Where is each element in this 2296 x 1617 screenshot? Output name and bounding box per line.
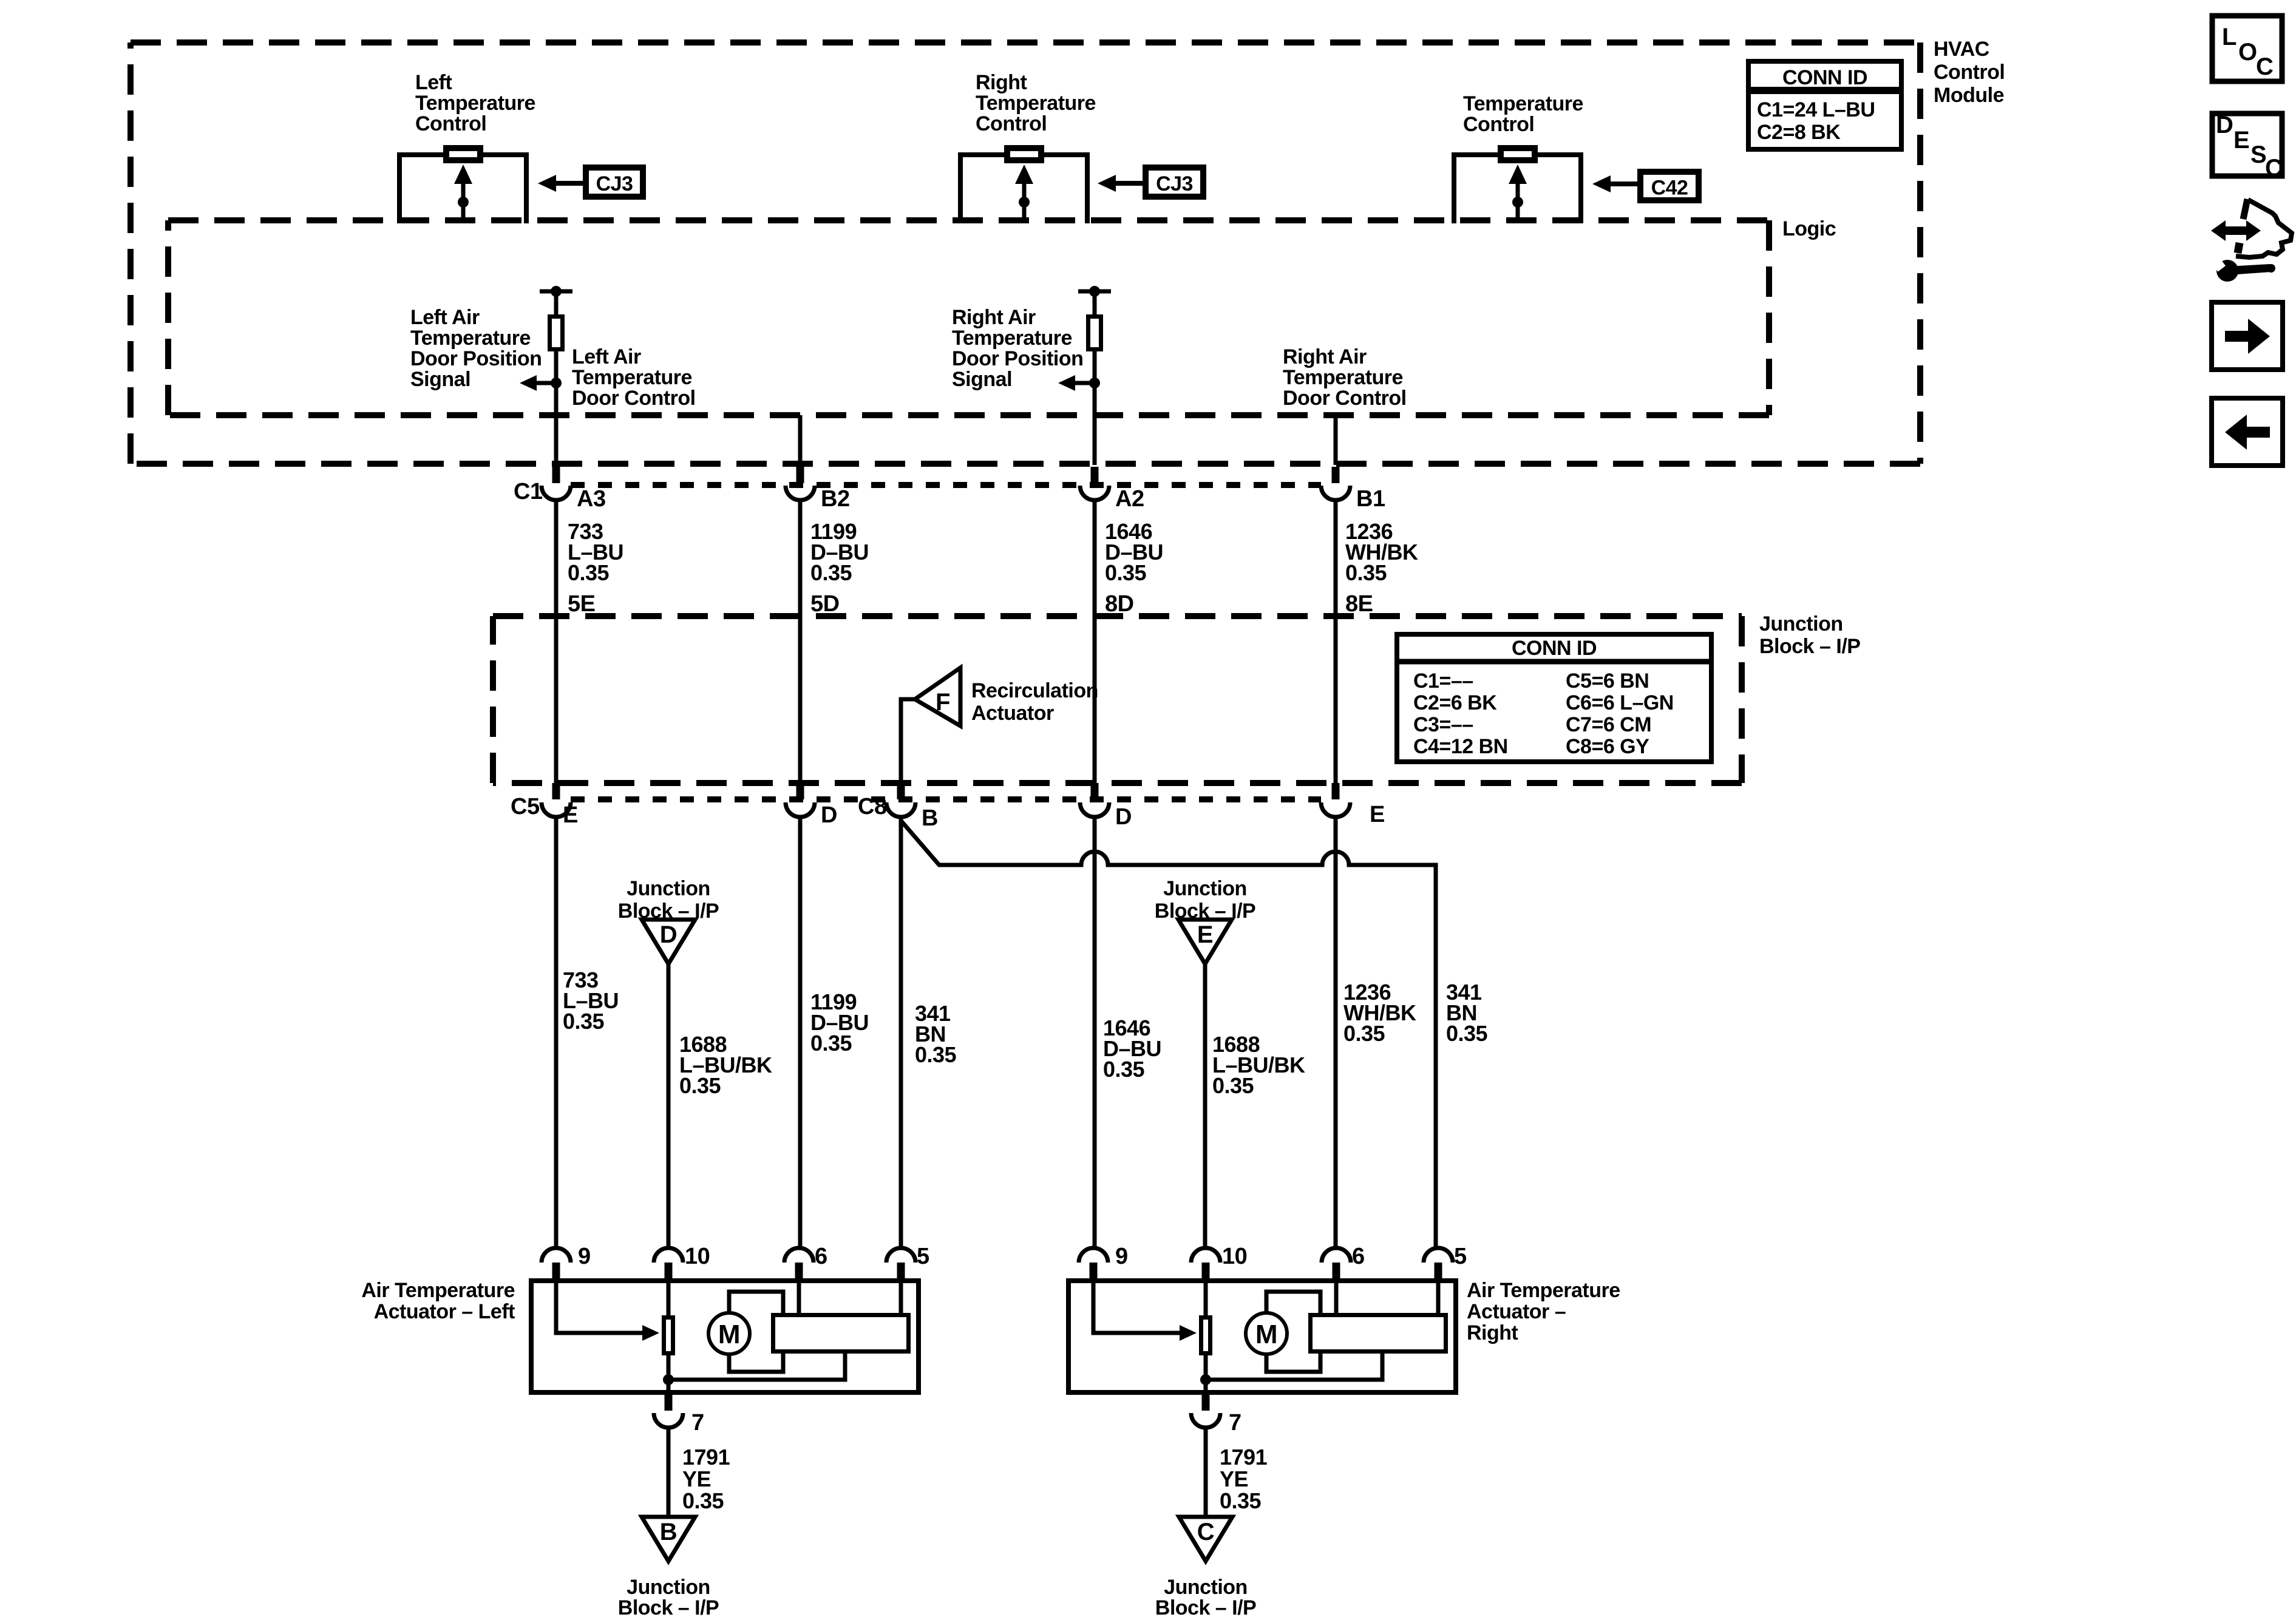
Air Temperature Actuator - Right pin 10 wire through potentiometer bbox=[1204, 1278, 1208, 1395]
svg-text:Junction: Junction bbox=[1759, 612, 1843, 636]
svg-text:Temperature: Temperature bbox=[415, 92, 535, 115]
wire 1791 YE from left actuator pin 7 bbox=[667, 1427, 671, 1518]
svg-text:Junction: Junction bbox=[1163, 877, 1247, 900]
svg-text:0.35: 0.35 bbox=[1345, 560, 1387, 585]
svg-text:YE: YE bbox=[682, 1466, 711, 1491]
junction dot common return bbox=[663, 1374, 674, 1385]
svg-text:0.35: 0.35 bbox=[679, 1073, 721, 1098]
CONN ID table (HVAC Control Module) bbox=[1748, 61, 1901, 149]
svg-text:5E: 5E bbox=[568, 591, 595, 617]
Air Temperature Actuator - Right motor winding loop bbox=[1266, 1292, 1320, 1372]
svg-text:L: L bbox=[2222, 24, 2237, 50]
svg-text:Module: Module bbox=[1934, 84, 2004, 107]
wire 1646 D-BU from logic to C1 pin A2 bbox=[1093, 415, 1097, 465]
svg-text:Door Control: Door Control bbox=[572, 387, 696, 410]
junction block pin D terminal bbox=[796, 783, 804, 799]
svg-text:D: D bbox=[821, 802, 837, 828]
svg-text:Actuator – Left: Actuator – Left bbox=[374, 1300, 515, 1323]
potentiometer Right Temperature Control left leg wire bbox=[960, 155, 1004, 223]
svg-text:Actuator: Actuator bbox=[971, 702, 1054, 725]
svg-text:C6=6 L–GN: C6=6 L–GN bbox=[1566, 691, 1674, 714]
potentiometer Temperature Control right leg wire bbox=[1538, 155, 1581, 223]
back arrow icon box bbox=[2212, 398, 2283, 466]
potentiometer Right Temperature Control body bbox=[1007, 148, 1041, 160]
wire 1688 L-BU/BK triangle E to actuator right pin 10 bbox=[1203, 964, 1207, 1249]
wire from bar to resistor bbox=[554, 291, 559, 316]
potentiometer Right Temperature Control right leg wire bbox=[1044, 155, 1087, 223]
svg-text:6: 6 bbox=[815, 1244, 827, 1269]
svg-text:0.35: 0.35 bbox=[568, 560, 610, 585]
svg-text:Right: Right bbox=[1467, 1321, 1518, 1344]
Recirculation Actuator triangle F bbox=[915, 668, 960, 726]
svg-text:Block – I/P: Block – I/P bbox=[1155, 1596, 1256, 1617]
svg-text:Temperature: Temperature bbox=[952, 327, 1072, 350]
svg-text:S: S bbox=[2250, 141, 2266, 168]
svg-text:Right Air: Right Air bbox=[1283, 345, 1367, 368]
Air Temperature Actuator - Left motor M bbox=[708, 1313, 750, 1354]
LOC icon box bbox=[2212, 16, 2282, 81]
svg-text:7: 7 bbox=[691, 1410, 704, 1436]
potentiometer Right Temperature Control wiper arrow bbox=[1015, 164, 1033, 184]
svg-text:5: 5 bbox=[917, 1244, 929, 1269]
Air Temperature Actuator - Left pin 6 terminal bbox=[784, 1248, 813, 1263]
vehicle direction icon bbox=[2211, 199, 2292, 282]
wire 1199 D-BU from logic to C1 pin B2 bbox=[798, 415, 803, 465]
svg-text:0.35: 0.35 bbox=[682, 1488, 724, 1513]
svg-text:Door Position: Door Position bbox=[952, 347, 1083, 370]
Air Temperature Actuator - Left feedback winding bbox=[773, 1315, 909, 1352]
svg-text:Air Temperature: Air Temperature bbox=[361, 1279, 515, 1302]
svg-text:C: C bbox=[1197, 1519, 1214, 1545]
svg-text:9: 9 bbox=[1115, 1244, 1128, 1269]
connector C1 pin A3 terminal bbox=[552, 467, 560, 483]
wire 733 L-BU from logic to C1 pin A3 bbox=[554, 415, 559, 465]
junction block C5 pin E terminal bbox=[552, 783, 560, 799]
svg-text:CJ3: CJ3 bbox=[596, 172, 633, 195]
Air Temperature Actuator - Right feedback winding bbox=[1311, 1315, 1446, 1352]
svg-text:YE: YE bbox=[1220, 1466, 1248, 1491]
svg-text:0.35: 0.35 bbox=[810, 1031, 852, 1056]
junction block pin D terminal bbox=[1091, 783, 1099, 799]
Air Temperature Actuator - Right common return wire bbox=[1206, 1354, 1382, 1380]
Junction Block I/P dashed box bbox=[493, 613, 1742, 619]
junction dot on Right Temperature Control wiper bbox=[1019, 197, 1030, 208]
svg-text:C1: C1 bbox=[514, 479, 543, 504]
svg-text:Signal: Signal bbox=[952, 368, 1012, 391]
Air Temperature Actuator - Right pin 6 terminal bbox=[1322, 1248, 1351, 1263]
svg-text:Block – I/P: Block – I/P bbox=[618, 1596, 719, 1617]
wire 1646 D-BU to actuator right pin 9 bbox=[1093, 816, 1097, 1249]
svg-text:B2: B2 bbox=[821, 486, 850, 512]
Air Temperature Actuator - Left pin 6 wire bbox=[797, 1278, 801, 1315]
svg-text:C3=––: C3=–– bbox=[1413, 713, 1473, 736]
svg-text:C8=6 GY: C8=6 GY bbox=[1566, 735, 1649, 758]
Air Temperature Actuator - Left motor winding loop bbox=[729, 1292, 783, 1372]
svg-text:6: 6 bbox=[1352, 1244, 1365, 1269]
Air Temperature Actuator - Right pin 10 terminal bbox=[1191, 1248, 1220, 1263]
Air Temperature Actuator - Left pin 10 terminal bbox=[654, 1248, 683, 1263]
Air Temperature Actuator - Right position potentiometer bbox=[1201, 1318, 1211, 1354]
junction block pin E terminal bbox=[1332, 783, 1340, 799]
Air Temperature Actuator - Right pin 7 terminal bbox=[1202, 1395, 1210, 1411]
svg-text:Junction: Junction bbox=[627, 877, 710, 900]
wire below resistor left position sensor bbox=[554, 349, 559, 418]
wire 341 BN to actuator left pin 5 bbox=[899, 816, 903, 1249]
Air Temperature Actuator - Left box bbox=[531, 1281, 919, 1392]
junction dot at right position sensor top bbox=[1089, 286, 1100, 297]
wire 341 BN branch to actuator right pin 5 bbox=[901, 821, 1436, 1249]
Air Temperature Actuator - Left wiper feed wire (pin 9) bbox=[556, 1278, 644, 1333]
connector C1 pin B1 terminal bbox=[1332, 467, 1340, 483]
potentiometer Left Temperature Control body bbox=[446, 148, 480, 160]
wire 1236 WH/BK to junction block 8E bbox=[1334, 499, 1338, 784]
arrow from CJ3 to Right Temperature Control bbox=[1113, 181, 1144, 186]
svg-text:0.35: 0.35 bbox=[915, 1042, 957, 1067]
Air Temperature Actuator - Right motor M bbox=[1246, 1313, 1287, 1354]
wire below resistor right position sensor bbox=[1093, 349, 1097, 418]
svg-text:C4=12 BN: C4=12 BN bbox=[1413, 735, 1508, 758]
Air Temperature Actuator - Left common return wire bbox=[668, 1354, 845, 1380]
wire 1791 YE from right actuator pin 7 bbox=[1204, 1427, 1208, 1518]
svg-text:0.35: 0.35 bbox=[1446, 1021, 1488, 1046]
wire 733 L-BU to actuator left pin 9 bbox=[554, 816, 559, 1249]
svg-text:B1: B1 bbox=[1356, 486, 1385, 512]
svg-text:C42: C42 bbox=[1651, 177, 1688, 200]
svg-text:Logic: Logic bbox=[1782, 217, 1836, 240]
svg-text:C: C bbox=[2256, 53, 2273, 80]
svg-text:0.35: 0.35 bbox=[1220, 1488, 1262, 1513]
svg-text:10: 10 bbox=[685, 1244, 710, 1269]
svg-text:0.35: 0.35 bbox=[810, 560, 852, 585]
Air Temperature Actuator - Right wiper feed wire (pin 9) bbox=[1093, 1278, 1181, 1333]
Air Temperature Actuator - Right pin 5 wire bbox=[1436, 1278, 1441, 1315]
connector CJ3 box (left) bbox=[586, 168, 643, 197]
svg-text:Temperature: Temperature bbox=[410, 327, 531, 350]
junction dot at left position sensor top bbox=[551, 286, 562, 297]
svg-text:C5: C5 bbox=[511, 794, 540, 819]
svg-text:D: D bbox=[2216, 112, 2233, 138]
Air Temperature Actuator - Left pin 7 terminal bbox=[665, 1395, 673, 1411]
wire 1688 L-BU/BK triangle D to actuator left pin 10 bbox=[667, 964, 671, 1249]
junction dot on Left Temperature Control wiper bbox=[458, 197, 469, 208]
DESC icon box bbox=[2212, 112, 2282, 181]
svg-text:C7=6 CM: C7=6 CM bbox=[1566, 713, 1651, 736]
Air Temperature Actuator - Left pin 5 terminal bbox=[886, 1248, 915, 1263]
junction dot common return bbox=[1200, 1374, 1211, 1385]
potentiometer Temperature Control body bbox=[1501, 148, 1535, 160]
svg-text:9: 9 bbox=[578, 1244, 591, 1269]
potentiometer Left Temperature Control wiper arrow bbox=[454, 164, 472, 184]
right position sensor top terminal bar bbox=[1078, 290, 1111, 294]
svg-text:Control: Control bbox=[1934, 61, 2005, 84]
svg-text:Junction: Junction bbox=[627, 1576, 710, 1599]
svg-text:Junction: Junction bbox=[1164, 1576, 1248, 1599]
Air Temperature Actuator - Left pin 10 wire through potentiometer bbox=[667, 1278, 671, 1395]
svg-text:Temperature: Temperature bbox=[1283, 366, 1403, 389]
left position sensor top terminal bar bbox=[540, 290, 572, 294]
wire 1236 WH/BK from logic to C1 pin B1 bbox=[1334, 415, 1338, 465]
connector CJ3 box (right) bbox=[1146, 168, 1203, 197]
svg-text:E: E bbox=[1370, 802, 1385, 827]
Air Temperature Actuator - Left pin 9 terminal bbox=[542, 1248, 571, 1263]
CONN ID table (Junction Block) bbox=[1397, 634, 1711, 762]
svg-text:Right Air: Right Air bbox=[952, 306, 1036, 329]
junction block triangle C bbox=[1179, 1517, 1232, 1561]
svg-text:Control: Control bbox=[1463, 113, 1534, 136]
svg-text:B: B bbox=[660, 1519, 677, 1545]
svg-text:Signal: Signal bbox=[410, 368, 470, 391]
svg-text:C1=––: C1=–– bbox=[1413, 670, 1473, 693]
junction block C8 pin B terminal bbox=[897, 783, 905, 799]
svg-text:C5=6 BN: C5=6 BN bbox=[1566, 670, 1649, 693]
svg-text:Left Air: Left Air bbox=[572, 345, 641, 368]
svg-text:C8: C8 bbox=[858, 794, 887, 819]
svg-text:1791: 1791 bbox=[682, 1445, 730, 1470]
svg-text:0.35: 0.35 bbox=[1103, 1057, 1145, 1082]
svg-text:O: O bbox=[2238, 39, 2257, 66]
svg-text:HVAC: HVAC bbox=[1934, 38, 1989, 61]
forward arrow icon box bbox=[2212, 302, 2283, 370]
arrow from C42 to Temperature Control bbox=[1608, 181, 1639, 186]
svg-text:CJ3: CJ3 bbox=[1156, 172, 1193, 195]
svg-text:M: M bbox=[1255, 1320, 1277, 1349]
Air Temperature Actuator - Right pin 6 wire bbox=[1334, 1278, 1339, 1315]
svg-text:Control: Control bbox=[976, 112, 1047, 135]
svg-text:D: D bbox=[1115, 804, 1132, 830]
svg-text:Left Air: Left Air bbox=[410, 306, 480, 329]
svg-text:Recirculation: Recirculation bbox=[971, 679, 1098, 702]
potentiometer Left Temperature Control right leg wire bbox=[483, 155, 526, 223]
Air Temperature Actuator - Right box bbox=[1068, 1281, 1456, 1392]
HVAC Control Module dashed box bbox=[131, 39, 1920, 46]
wire from recirculation actuator to junction block C8 pin B bbox=[901, 699, 915, 784]
svg-text:C: C bbox=[2265, 155, 2282, 181]
Air Temperature Actuator - Right pin 9 terminal bbox=[1079, 1248, 1108, 1263]
connector C1 pin B2 terminal bbox=[796, 467, 804, 483]
potentiometer Left Temperature Control left leg wire bbox=[399, 155, 443, 223]
wire 1236 WH/BK to actuator right pin 6 bbox=[1334, 816, 1338, 1249]
wire from bar to resistor bbox=[1093, 291, 1097, 316]
junction dot on left position sensor signal tap bbox=[551, 378, 562, 388]
svg-text:Control: Control bbox=[415, 112, 486, 135]
svg-text:C1=24 L–BU: C1=24 L–BU bbox=[1757, 98, 1875, 121]
svg-text:Temperature: Temperature bbox=[1463, 92, 1583, 115]
svg-text:Block – I/P: Block – I/P bbox=[1759, 635, 1860, 658]
svg-text:B: B bbox=[922, 805, 938, 831]
wire 1199 D-BU to actuator left pin 6 bbox=[798, 816, 803, 1249]
svg-text:10: 10 bbox=[1222, 1244, 1247, 1269]
connector C1 pin A2 terminal bbox=[1091, 467, 1099, 483]
potentiometer Temperature Control wiper arrow bbox=[1509, 164, 1527, 184]
svg-text:C2=6 BK: C2=6 BK bbox=[1413, 691, 1497, 714]
wire 733 L-BU to junction block 5E bbox=[554, 499, 559, 784]
svg-text:E: E bbox=[2233, 127, 2249, 154]
junction dot on right position sensor signal tap bbox=[1089, 378, 1100, 388]
svg-text:E: E bbox=[563, 802, 578, 828]
svg-text:Actuator –: Actuator – bbox=[1467, 1300, 1566, 1323]
connector C42 box bbox=[1640, 172, 1699, 200]
svg-text:Door Position: Door Position bbox=[410, 347, 542, 370]
svg-text:5: 5 bbox=[1454, 1244, 1467, 1269]
svg-text:F: F bbox=[936, 689, 950, 716]
svg-text:0.35: 0.35 bbox=[1343, 1021, 1385, 1046]
junction block triangle D bbox=[642, 920, 695, 964]
svg-text:Left: Left bbox=[415, 71, 452, 94]
Air Temperature Actuator - Left pin 5 wire bbox=[899, 1278, 903, 1315]
svg-text:A2: A2 bbox=[1115, 486, 1144, 512]
signal tap arrow bbox=[1073, 381, 1095, 385]
Air Temperature Actuator - Left position potentiometer bbox=[664, 1318, 673, 1354]
svg-text:8E: 8E bbox=[1345, 591, 1373, 617]
svg-text:Door Control: Door Control bbox=[1283, 387, 1407, 410]
svg-text:A3: A3 bbox=[577, 486, 606, 512]
junction dot on Temperature Control wiper bbox=[1512, 197, 1523, 208]
svg-text:D: D bbox=[660, 921, 677, 948]
signal tap arrow bbox=[534, 381, 556, 385]
Air Temperature Actuator - Right pin 5 terminal bbox=[1424, 1248, 1453, 1263]
svg-text:0.35: 0.35 bbox=[1212, 1073, 1254, 1098]
svg-text:M: M bbox=[718, 1320, 740, 1349]
Logic dashed box bbox=[168, 217, 1769, 223]
svg-text:Temperature: Temperature bbox=[976, 92, 1096, 115]
svg-text:Right: Right bbox=[976, 71, 1027, 94]
svg-text:1791: 1791 bbox=[1220, 1445, 1268, 1470]
svg-text:8D: 8D bbox=[1105, 591, 1134, 617]
junction block triangle B bbox=[642, 1517, 695, 1561]
dotted connector line (junction block outputs) bbox=[571, 796, 1321, 802]
wire 1646 D-BU to junction block 8D bbox=[1093, 499, 1097, 784]
svg-text:0.35: 0.35 bbox=[563, 1009, 605, 1034]
svg-text:7: 7 bbox=[1229, 1410, 1241, 1436]
svg-text:Air Temperature: Air Temperature bbox=[1467, 1279, 1620, 1302]
svg-text:E: E bbox=[1197, 921, 1213, 948]
svg-text:CONN ID: CONN ID bbox=[1512, 637, 1597, 660]
svg-text:C2=8 BK: C2=8 BK bbox=[1757, 121, 1841, 144]
wire 1199 D-BU to junction block 5D bbox=[798, 499, 803, 784]
arrow from CJ3 to Left Temperature Control bbox=[554, 181, 584, 186]
potentiometer Temperature Control left leg wire bbox=[1454, 155, 1498, 223]
svg-text:CONN ID: CONN ID bbox=[1782, 66, 1867, 89]
resistor left position sensor bbox=[550, 317, 563, 350]
svg-text:5D: 5D bbox=[810, 591, 840, 617]
svg-text:0.35: 0.35 bbox=[1105, 560, 1147, 585]
dotted connector line C1 bbox=[571, 482, 1321, 488]
svg-text:Temperature: Temperature bbox=[572, 366, 692, 389]
resistor right position sensor bbox=[1089, 317, 1101, 350]
junction block triangle E bbox=[1178, 920, 1232, 964]
